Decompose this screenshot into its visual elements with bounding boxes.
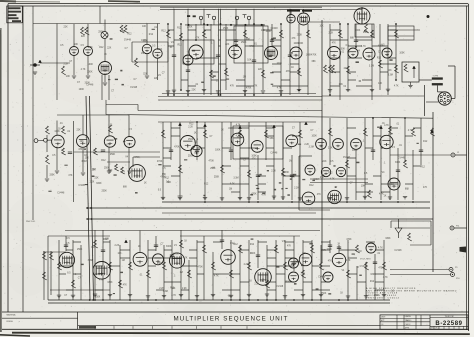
svg-text:470K: 470K [378, 267, 384, 269]
svg-text:68K: 68K [312, 61, 317, 63]
svg-text:T1 PRI: T1 PRI [433, 75, 439, 77]
svg-text:4.7K: 4.7K [81, 69, 86, 71]
svg-text:100K: 100K [54, 131, 60, 133]
svg-text:3.3M: 3.3M [163, 291, 168, 293]
svg-text:1K: 1K [249, 281, 252, 283]
svg-text:10K: 10K [117, 253, 122, 255]
svg-text:CV448: CV448 [86, 84, 94, 86]
svg-text:100K: 100K [79, 89, 85, 91]
svg-text:CV448: CV448 [130, 87, 138, 89]
svg-text:3.3M: 3.3M [388, 74, 393, 76]
svg-text:10K: 10K [378, 83, 383, 85]
svg-text:250K: 250K [98, 31, 104, 33]
svg-text:1K: 1K [340, 293, 343, 295]
svg-text:22K: 22K [81, 36, 86, 38]
svg-text:4.7K: 4.7K [236, 136, 241, 138]
svg-text:4.7K: 4.7K [171, 295, 176, 297]
svg-text:4.7K: 4.7K [384, 125, 389, 127]
svg-text:10K: 10K [142, 26, 147, 28]
svg-text:1M: 1M [358, 251, 361, 253]
svg-text:3.3M: 3.3M [233, 177, 238, 179]
svg-text:4.7K: 4.7K [361, 46, 366, 48]
svg-text:470K: 470K [249, 46, 255, 48]
svg-text:22K: 22K [192, 90, 197, 92]
svg-text:47K: 47K [106, 144, 111, 146]
svg-text:22K: 22K [107, 48, 112, 50]
svg-text:47K: 47K [253, 86, 258, 88]
svg-text:330K: 330K [107, 282, 113, 284]
svg-text:47K: 47K [123, 284, 128, 286]
svg-text:2.2K: 2.2K [88, 47, 93, 49]
svg-text:250K: 250K [104, 167, 110, 169]
svg-text:2.2K: 2.2K [115, 245, 120, 247]
svg-text:68K: 68K [228, 296, 233, 298]
svg-text:4.7K: 4.7K [261, 194, 266, 196]
svg-text:10K: 10K [293, 261, 298, 263]
svg-text:3.3M: 3.3M [309, 147, 314, 149]
svg-text:1K: 1K [384, 196, 387, 198]
svg-text:470K: 470K [173, 254, 179, 256]
svg-text:CV448: CV448 [124, 39, 132, 41]
svg-text:2.2K: 2.2K [328, 32, 333, 34]
svg-text:250K: 250K [297, 34, 303, 36]
svg-text:100K: 100K [266, 31, 272, 33]
svg-text:47K: 47K [286, 71, 291, 73]
svg-text:22K: 22K [95, 177, 100, 179]
svg-text:22K: 22K [225, 44, 230, 46]
svg-text:4.7K: 4.7K [291, 264, 296, 266]
svg-text:1K: 1K [337, 243, 340, 245]
svg-text:47K: 47K [252, 158, 257, 160]
svg-text:330K: 330K [166, 246, 172, 248]
svg-text:1K: 1K [260, 280, 263, 282]
svg-text:330K: 330K [177, 196, 183, 198]
svg-text:2.2K: 2.2K [63, 64, 68, 66]
svg-text:100K: 100K [141, 40, 147, 42]
svg-text:3.3M: 3.3M [102, 74, 107, 76]
svg-text:22K: 22K [80, 141, 85, 143]
svg-text:68K: 68K [350, 37, 355, 39]
svg-text:22K: 22K [322, 161, 327, 163]
svg-text:R12: R12 [189, 124, 194, 126]
svg-text:2.2K: 2.2K [188, 127, 193, 129]
svg-text:330K: 330K [87, 71, 93, 73]
svg-text:4.7K: 4.7K [383, 277, 388, 279]
svg-text:250K: 250K [188, 156, 194, 158]
svg-text:470K: 470K [197, 267, 203, 269]
svg-text:250K: 250K [321, 293, 327, 295]
svg-text:4.7K: 4.7K [230, 184, 235, 186]
svg-text:R12: R12 [421, 167, 426, 169]
svg-text:4.7K: 4.7K [183, 257, 188, 259]
svg-text:470K: 470K [251, 194, 257, 196]
svg-text:1K: 1K [144, 183, 147, 185]
svg-text:470K: 470K [311, 55, 317, 57]
svg-text:100K: 100K [399, 53, 405, 55]
svg-text:2.2K: 2.2K [304, 144, 309, 146]
svg-text:R12: R12 [127, 34, 132, 36]
svg-text:22K: 22K [64, 26, 69, 28]
svg-text:330K: 330K [385, 238, 391, 240]
svg-text:R12: R12 [161, 31, 166, 33]
svg-text:250K: 250K [187, 26, 193, 28]
svg-text:2.2K: 2.2K [159, 288, 164, 290]
svg-text:1K: 1K [194, 133, 197, 135]
svg-text:MATERIAL: MATERIAL [7, 314, 16, 317]
svg-text:CV448: CV448 [270, 153, 278, 155]
svg-text:470K: 470K [346, 239, 352, 241]
svg-text:3.3M: 3.3M [369, 65, 374, 67]
svg-text:100K: 100K [277, 63, 283, 65]
svg-text:250K: 250K [95, 296, 101, 298]
svg-text:CV448: CV448 [276, 286, 284, 288]
svg-text:W.L: W.L [406, 320, 409, 322]
svg-text:68K: 68K [105, 239, 110, 241]
svg-text:3.3M: 3.3M [313, 179, 318, 181]
svg-text:4.7K: 4.7K [99, 280, 104, 282]
svg-text:250K: 250K [77, 249, 83, 251]
svg-text:2.2K: 2.2K [301, 273, 306, 275]
svg-text:1K: 1K [138, 246, 141, 248]
svg-text:250K: 250K [101, 190, 107, 192]
svg-text:VOLT- REG: VOLT- REG [360, 259, 371, 261]
svg-text:330K: 330K [96, 183, 102, 185]
svg-text:CV448: CV448 [343, 157, 351, 159]
svg-text:250K: 250K [214, 176, 220, 178]
svg-text:4.7K: 4.7K [378, 248, 383, 250]
svg-text:FINISH: FINISH [7, 321, 14, 323]
svg-text:22K: 22K [154, 78, 159, 80]
svg-text:250K: 250K [363, 32, 369, 34]
svg-text:330K: 330K [370, 274, 376, 276]
svg-text:22K: 22K [258, 69, 263, 71]
svg-text:330K: 330K [157, 49, 163, 51]
svg-text:47K: 47K [317, 194, 322, 196]
svg-text:330K: 330K [49, 175, 55, 177]
svg-text:470K: 470K [374, 295, 380, 297]
svg-text:TELECOM: TELECOM [445, 316, 454, 318]
svg-text:R12: R12 [178, 44, 183, 46]
svg-text:R12: R12 [377, 58, 382, 60]
svg-text:100K: 100K [340, 49, 346, 51]
svg-text:CV448: CV448 [398, 157, 406, 159]
svg-text:R12: R12 [309, 185, 314, 187]
svg-text:1K: 1K [391, 184, 394, 186]
svg-text:100K: 100K [355, 30, 361, 32]
svg-text:10K: 10K [66, 76, 71, 78]
svg-text:CV448: CV448 [318, 277, 326, 279]
svg-text:B-22589: B-22589 [435, 321, 462, 327]
svg-text:100K: 100K [311, 135, 317, 137]
svg-text:2.2K: 2.2K [271, 170, 276, 172]
svg-text:470K: 470K [378, 45, 384, 47]
svg-text:2.2K: 2.2K [244, 264, 249, 266]
svg-text:250K: 250K [241, 42, 247, 44]
svg-text:68K: 68K [269, 138, 274, 140]
svg-text:R12: R12 [423, 141, 428, 143]
svg-text:10K: 10K [247, 59, 252, 61]
svg-text:1M: 1M [141, 53, 144, 55]
svg-text:330K: 330K [284, 172, 290, 174]
svg-text:3.3M: 3.3M [120, 31, 125, 33]
svg-text:330K: 330K [250, 253, 256, 255]
svg-text:250K: 250K [188, 139, 194, 141]
svg-text:47K: 47K [291, 38, 296, 40]
svg-text:4.7K: 4.7K [394, 86, 399, 88]
svg-text:470K: 470K [174, 147, 180, 149]
svg-text:PENTODES : CV4014: PENTODES : CV4014 [366, 298, 400, 300]
svg-text:22K: 22K [143, 74, 148, 76]
svg-text:CV448: CV448 [360, 266, 368, 268]
svg-text:R12: R12 [177, 27, 182, 29]
svg-text:2.2K: 2.2K [294, 187, 299, 189]
svg-text:470K: 470K [246, 87, 252, 89]
svg-text:470K: 470K [209, 161, 215, 163]
svg-text:4.7K: 4.7K [277, 88, 282, 90]
svg-text:330K: 330K [157, 263, 163, 265]
svg-text:2.2K: 2.2K [90, 181, 95, 183]
svg-text:68K: 68K [123, 186, 128, 188]
svg-text:68K: 68K [171, 288, 176, 290]
svg-text:2.2K: 2.2K [328, 147, 333, 149]
svg-text:1K: 1K [104, 54, 107, 56]
svg-text:R12: R12 [165, 178, 170, 180]
svg-text:10K: 10K [320, 26, 325, 28]
svg-text:R12: R12 [204, 183, 209, 185]
svg-text:4.7K: 4.7K [330, 178, 335, 180]
svg-text:22K: 22K [388, 134, 393, 136]
svg-text:100K: 100K [88, 64, 94, 66]
svg-text:250K: 250K [285, 281, 291, 283]
svg-text:47K: 47K [68, 175, 73, 177]
svg-text:100K: 100K [215, 150, 221, 152]
svg-text:2.2K: 2.2K [254, 284, 259, 286]
svg-text:100K: 100K [327, 249, 333, 251]
svg-text:22K: 22K [344, 68, 349, 70]
svg-text:47K: 47K [332, 43, 337, 45]
svg-text:CV448: CV448 [57, 193, 65, 195]
svg-text:2.2K: 2.2K [346, 260, 351, 262]
svg-text:1M: 1M [243, 77, 246, 79]
svg-text:10K: 10K [361, 185, 366, 187]
svg-text:22K: 22K [92, 170, 97, 172]
svg-text:10K: 10K [291, 177, 296, 179]
svg-text:CV448: CV448 [394, 250, 402, 252]
svg-text:22K: 22K [77, 130, 82, 132]
svg-text:1K: 1K [221, 129, 224, 131]
svg-text:100K: 100K [293, 43, 299, 45]
svg-text:R12: R12 [149, 34, 154, 36]
svg-text:R12: R12 [250, 244, 255, 246]
svg-text:R12: R12 [370, 281, 375, 283]
svg-text:4.7K: 4.7K [236, 124, 241, 126]
svg-text:250K: 250K [110, 154, 116, 156]
svg-text:R12: R12 [101, 160, 106, 162]
svg-text:R12: R12 [233, 244, 238, 246]
svg-text:10K: 10K [74, 44, 79, 46]
svg-text:10K: 10K [85, 157, 90, 159]
svg-text:10K: 10K [388, 70, 393, 72]
svg-text:47K: 47K [287, 246, 292, 248]
svg-text:PHX 102: PHX 102 [26, 221, 36, 223]
svg-text:1K: 1K [291, 67, 294, 69]
svg-text:47K: 47K [423, 187, 428, 189]
svg-text:CHECK: CHECK [405, 324, 412, 326]
svg-text:1M: 1M [122, 260, 125, 262]
svg-text:4.7K: 4.7K [408, 130, 413, 132]
svg-text:R12: R12 [91, 247, 96, 249]
svg-text:3.3M: 3.3M [88, 260, 93, 262]
svg-text:47K: 47K [320, 177, 325, 179]
svg-text:4.7K: 4.7K [214, 275, 219, 277]
svg-text:470K: 470K [157, 161, 163, 163]
svg-text:1K: 1K [184, 241, 187, 243]
svg-text:R12: R12 [99, 47, 104, 49]
svg-text:250K: 250K [223, 28, 229, 30]
svg-text:22K: 22K [81, 185, 86, 187]
svg-text:330K: 330K [395, 162, 401, 164]
svg-text:1M: 1M [289, 161, 292, 163]
svg-text:100K: 100K [352, 150, 358, 152]
svg-text:22K: 22K [69, 264, 74, 266]
svg-text:10K: 10K [302, 253, 307, 255]
svg-text:47K: 47K [230, 85, 235, 87]
svg-text:47K: 47K [328, 260, 333, 262]
svg-text:R12: R12 [328, 172, 333, 174]
svg-text:1M: 1M [180, 272, 183, 274]
svg-text:47K: 47K [195, 37, 200, 39]
svg-text:CV448: CV448 [271, 28, 279, 30]
